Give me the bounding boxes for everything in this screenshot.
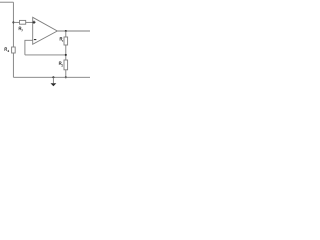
wire top input stub [0, 1, 13, 3]
label R3 [19, 27, 22, 31]
wire output [57, 30, 90, 32]
label R1 [60, 37, 63, 42]
wire feedback [25, 54, 66, 56]
wire bottom rail [13, 76, 90, 78]
op-amp U1 [33, 17, 58, 44]
wire left rail lower [12, 53, 14, 77]
op-amp + input mark [33, 21, 36, 24]
node ground junction [52, 76, 54, 78]
node input junction [12, 21, 14, 23]
ground [52, 77, 54, 83]
node bottom junction [65, 76, 67, 78]
op-amp - input mark [34, 39, 36, 41]
wire R2 bottom lead [65, 70, 67, 78]
wire R3 to op-amp [26, 21, 33, 23]
label R4 [5, 48, 9, 52]
wire left rail upper [12, 2, 14, 47]
resistor R4 [12, 47, 16, 53]
wire input to R3 [13, 21, 20, 23]
wire inverting input [25, 40, 33, 55]
resistor R3 [20, 20, 26, 24]
node feedback junction [65, 54, 67, 56]
node output junction [65, 30, 67, 32]
resistor R1 [64, 37, 68, 45]
wire R1 to R2 lead [65, 45, 67, 60]
resistor R2 [64, 60, 68, 70]
wire R1 top lead [65, 31, 67, 37]
label R2 [59, 62, 63, 67]
